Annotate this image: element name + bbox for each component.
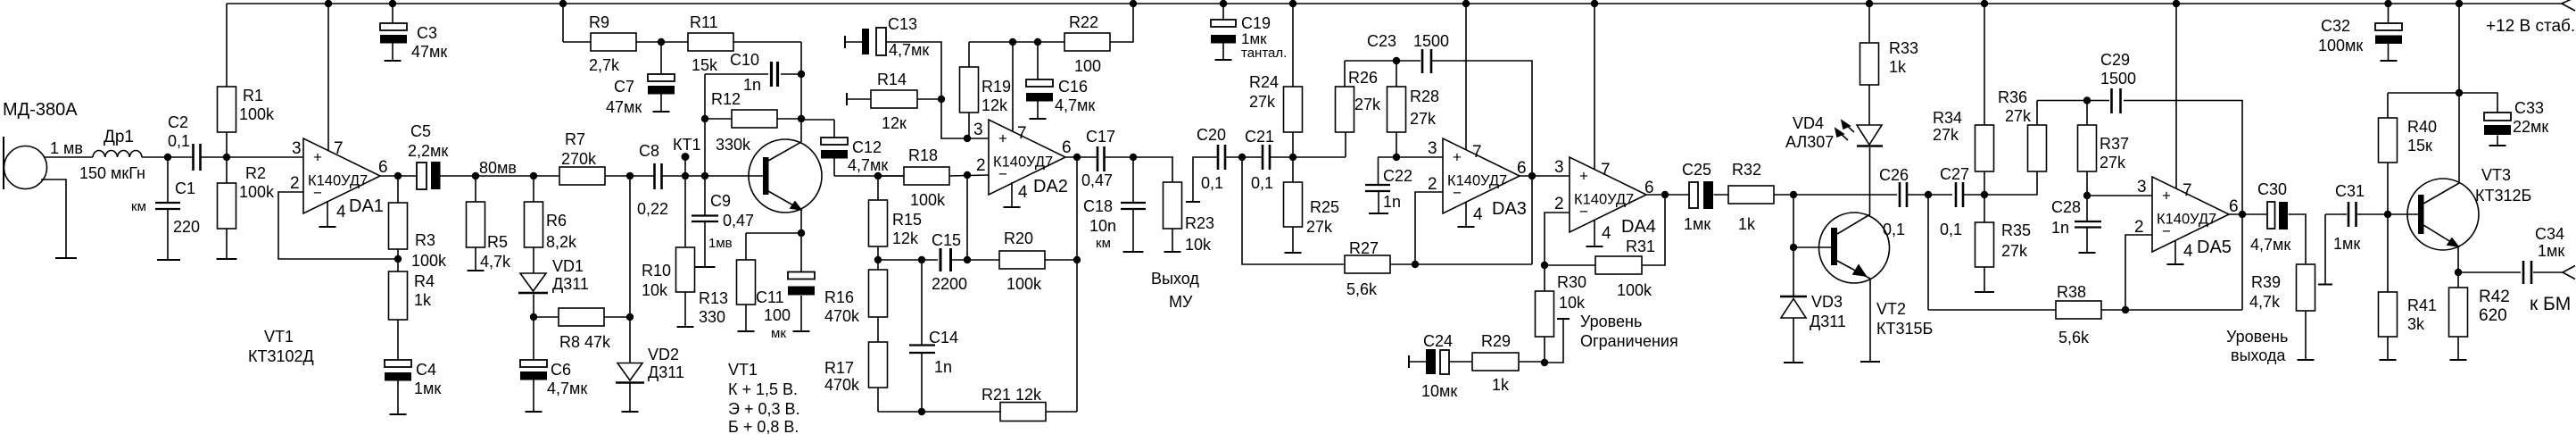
svg-text:330: 330 xyxy=(699,308,725,326)
svg-text:27k: 27k xyxy=(1306,218,1333,236)
svg-text:80мв: 80мв xyxy=(479,159,517,177)
svg-text:0,1: 0,1 xyxy=(1883,221,1905,238)
svg-text:R1: R1 xyxy=(243,87,263,104)
ground R25 xyxy=(1285,252,1302,254)
svg-text:4,7мк: 4,7мк xyxy=(889,41,929,59)
svg-text:C21: C21 xyxy=(1245,128,1274,146)
junction DA2 output xyxy=(1073,154,1081,161)
wire C23 to output vertical xyxy=(1432,61,1532,264)
junction rail R9 xyxy=(559,0,567,7)
svg-text:10k: 10k xyxy=(642,281,668,299)
svg-text:тантал.: тантал. xyxy=(1241,46,1287,61)
wire R12 right lead xyxy=(777,118,801,120)
wire C17 to R23 xyxy=(1105,156,1173,158)
wire +12V rail xyxy=(227,3,2562,4)
svg-text:C8: C8 xyxy=(639,142,659,160)
wire VD1 to node xyxy=(533,295,534,318)
junction DA3 pin3 node xyxy=(1393,154,1400,161)
wire R20 right xyxy=(1045,259,1077,261)
wire C15 to node xyxy=(949,259,999,261)
wire node to R30 xyxy=(1544,265,1545,291)
svg-text:6: 6 xyxy=(2229,197,2239,216)
svg-text:R19: R19 xyxy=(982,78,1011,96)
junction R15 R16 C15 node xyxy=(874,256,882,263)
svg-text:7: 7 xyxy=(2183,181,2192,200)
wire C12 to R18 node xyxy=(834,175,904,177)
svg-text:R33: R33 xyxy=(1889,39,1918,57)
svg-text:1500: 1500 xyxy=(1413,32,1449,50)
wire node to VT1 base xyxy=(705,175,763,177)
ground VT2 emitter xyxy=(1860,361,1880,363)
svg-text:R36: R36 xyxy=(1998,88,2027,106)
wire C10 R12 left vertical xyxy=(704,74,706,176)
junction KT1 node xyxy=(682,172,689,179)
svg-text:1мк: 1мк xyxy=(414,380,441,397)
wire C26C27 node down xyxy=(1927,195,1929,310)
svg-text:6: 6 xyxy=(378,158,388,177)
wire DA4 output xyxy=(1645,194,1689,196)
svg-text:R32: R32 xyxy=(1732,161,1761,179)
resistor R38 5,6k xyxy=(2056,301,2101,319)
wire C13 to R14 node xyxy=(886,42,941,99)
svg-text:мк: мк xyxy=(771,326,786,341)
wire DA5 output xyxy=(2229,213,2267,215)
capacitor C32 100мк xyxy=(2388,4,2390,23)
pin 7 DA2 xyxy=(1012,42,1014,131)
ground R13 xyxy=(738,330,755,332)
svg-text:4: 4 xyxy=(1473,205,1483,224)
svg-text:+: + xyxy=(998,130,1007,147)
junction DA3 output xyxy=(1528,172,1536,179)
wire node to R26 xyxy=(1293,156,1346,158)
svg-text:12k: 12k xyxy=(982,96,1008,114)
wire R18 to pin2 xyxy=(949,175,989,176)
resistor R19 12k xyxy=(960,67,979,113)
svg-text:R21 12k: R21 12k xyxy=(982,386,1042,404)
svg-text:C26: C26 xyxy=(1879,166,1909,184)
wire R38 to output vertical xyxy=(2101,309,2242,311)
resistor R16 470k xyxy=(869,270,888,317)
svg-text:C5: C5 xyxy=(410,122,431,140)
wire C21 to R24 node xyxy=(1271,156,1293,158)
wire node to R16 xyxy=(877,260,879,270)
svg-text:2: 2 xyxy=(976,156,986,175)
svg-text:100k: 100k xyxy=(1617,281,1652,299)
svg-text:C20: C20 xyxy=(1197,126,1226,144)
resistor R32 1k xyxy=(1728,186,1774,204)
resistor R31 100k xyxy=(1595,256,1642,274)
capacitor C12 4,7мк xyxy=(833,120,835,138)
pot tap Уровень выхода xyxy=(2324,214,2326,284)
capacitor C33 22мк xyxy=(2459,93,2497,113)
capacitor C34 1мк xyxy=(2522,261,2525,284)
wire C34 to connector xyxy=(2533,271,2563,273)
svg-text:C33: C33 xyxy=(2514,99,2544,117)
svg-text:МУ: МУ xyxy=(1169,293,1193,311)
wire rail to VT3 collector xyxy=(2458,4,2460,183)
wire C30 to R39 xyxy=(2289,214,2307,264)
wire DA3 pin2 loop xyxy=(1415,192,1443,264)
ground R42 xyxy=(2450,359,2467,361)
junction R8 VD2 node xyxy=(626,313,634,321)
resistor R34 27k xyxy=(1975,125,1994,171)
svg-text:C12: C12 xyxy=(852,138,882,156)
junction rail C32 xyxy=(2384,0,2391,7)
wire R23 ground lead xyxy=(1172,229,1173,252)
svg-text:R9: R9 xyxy=(589,13,609,31)
junction rail VT3 collector xyxy=(2456,0,2463,7)
svg-text:620: 620 xyxy=(2479,306,2507,325)
junction DA1 output xyxy=(394,172,402,179)
svg-text:R2: R2 xyxy=(245,164,266,182)
svg-text:1k: 1k xyxy=(414,291,432,309)
svg-text:R22: R22 xyxy=(1069,13,1098,31)
wire R11 right to corner xyxy=(733,41,801,43)
wire R5 ground lead xyxy=(475,247,476,271)
svg-text:100k: 100k xyxy=(411,252,447,270)
capacitor C30 4,7мк xyxy=(2267,202,2275,229)
svg-text:27k: 27k xyxy=(2001,242,2028,260)
capacitor C3 47мк xyxy=(392,4,393,23)
junction pin2 R20 node xyxy=(964,256,971,263)
junction R12 right xyxy=(798,115,805,122)
wire DA4 pin2 loop xyxy=(1545,213,1570,265)
wire R28 bottom lead xyxy=(1396,132,1397,157)
svg-text:R40: R40 xyxy=(2407,118,2437,136)
svg-text:VT1: VT1 xyxy=(264,328,294,346)
resistor R15 12k xyxy=(869,200,888,246)
svg-text:4: 4 xyxy=(336,203,346,221)
wire terminal to C24 xyxy=(1409,361,1426,363)
svg-text:6: 6 xyxy=(1517,159,1527,178)
svg-text:7: 7 xyxy=(1017,124,1027,143)
svg-text:+: + xyxy=(1453,149,1462,166)
svg-text:Выход: Выход xyxy=(1151,270,1199,288)
wire R27 right xyxy=(1390,263,1532,265)
capacitor C27 0,1 xyxy=(1955,182,1958,207)
svg-text:1n: 1n xyxy=(743,76,761,94)
svg-text:КТ1: КТ1 xyxy=(673,136,701,154)
wire DA2 output xyxy=(1065,156,1097,158)
pin 4 DA3 xyxy=(1465,202,1467,227)
capacitor C13 4,7мк xyxy=(844,36,846,48)
wire VT3 emitter down xyxy=(2457,246,2459,272)
svg-text:470k: 470k xyxy=(824,376,860,394)
svg-text:100k: 100k xyxy=(1006,275,1042,293)
wire node to VD3 xyxy=(1793,195,1794,297)
svg-text:выхода: выхода xyxy=(2231,346,2286,364)
wire pin3 node to R19 xyxy=(968,113,970,138)
wire node to R5 xyxy=(475,176,476,202)
svg-text:47мк: 47мк xyxy=(606,98,642,116)
wire node to C6 xyxy=(533,317,534,360)
svg-text:15к: 15к xyxy=(2407,137,2432,154)
svg-text:C32: C32 xyxy=(2321,17,2350,35)
wire VT2 emitter down xyxy=(1869,279,1871,362)
svg-text:3: 3 xyxy=(292,139,302,158)
pin 4 DA1 xyxy=(327,201,328,227)
wire R31 right to output xyxy=(1642,195,1665,265)
wire node to R2 xyxy=(226,157,228,183)
svg-text:0,1: 0,1 xyxy=(1251,174,1273,192)
svg-text:1k: 1k xyxy=(1889,58,1907,76)
resistor R23 10k xyxy=(1164,182,1182,229)
svg-text:R15: R15 xyxy=(892,211,922,229)
ground C16 xyxy=(1030,118,1047,120)
svg-text:10k: 10k xyxy=(1559,294,1586,312)
junction rail C19 xyxy=(1220,0,1227,7)
wire R40 top wire xyxy=(2388,93,2459,118)
svg-text:12к: 12к xyxy=(882,114,907,132)
wire R32 to C26 xyxy=(1774,194,1897,196)
wire R40 to base node xyxy=(2387,163,2389,214)
svg-text:0,47: 0,47 xyxy=(723,212,754,230)
wire R1 to node xyxy=(226,132,228,157)
svg-text:R38: R38 xyxy=(2057,283,2086,301)
junction R15 R18 node xyxy=(874,172,882,179)
wire C22 corner to pin3 DA3 xyxy=(1378,156,1443,158)
svg-text:100k: 100k xyxy=(239,105,275,123)
microphone BM1 МД-380А xyxy=(3,137,4,189)
resistor R42 620 xyxy=(2449,288,2468,337)
pin 4 DA2 xyxy=(1011,182,1013,207)
resistor R40 15к xyxy=(2379,118,2398,163)
svg-text:22мк: 22мк xyxy=(2513,118,2548,136)
resistor R27 5,6k xyxy=(1345,255,1390,273)
ground R41 xyxy=(2380,359,2397,361)
resistor R25 27k xyxy=(1284,182,1303,227)
svg-text:К140УД7: К140УД7 xyxy=(1447,173,1507,189)
wire inductor to C2 xyxy=(142,156,193,158)
junction rail R33 xyxy=(1866,0,1873,7)
junction R40 C33 node xyxy=(2456,89,2463,96)
wire node to R15 xyxy=(877,176,879,200)
connector arrow +12V xyxy=(2562,0,2575,11)
svg-text:4,7мк: 4,7мк xyxy=(1055,96,1095,114)
wire R4 to C4 xyxy=(397,320,399,360)
wire node to R6 xyxy=(533,176,534,202)
svg-text:100k: 100k xyxy=(239,183,275,201)
wire node to DA5 pin3 xyxy=(2087,195,2152,196)
svg-text:4,7мк: 4,7мк xyxy=(547,380,587,397)
ground VD2 xyxy=(622,411,639,413)
resistor R37 27k xyxy=(2078,125,2097,171)
wire node to C15 xyxy=(878,259,938,261)
svg-text:330k: 330k xyxy=(716,136,751,154)
diode VD1 Д311 xyxy=(520,273,546,291)
capacitor C29 1500 xyxy=(2110,88,2113,113)
svg-text:15k: 15k xyxy=(692,56,718,74)
svg-text:DA4: DA4 xyxy=(1621,217,1656,237)
resistor R14 12к xyxy=(871,90,917,108)
resistor R3 100k xyxy=(389,203,408,249)
resistor R11 15k xyxy=(688,33,733,51)
svg-text:C27: C27 xyxy=(1940,165,1969,183)
junction R20 feedback xyxy=(1073,256,1081,263)
svg-text:6: 6 xyxy=(1062,138,1072,157)
svg-text:R16: R16 xyxy=(824,288,854,306)
junction DA5 output xyxy=(2239,211,2246,218)
junction DA2 pin3 xyxy=(964,135,971,142)
junction C7 node xyxy=(658,38,665,46)
svg-text:12k: 12k xyxy=(892,230,919,247)
resistor R36 27k xyxy=(2028,125,2047,171)
svg-text:C17: C17 xyxy=(1086,128,1115,146)
capacitor C25 1мк xyxy=(1689,182,1698,208)
svg-text:27k: 27k xyxy=(2100,154,2126,171)
svg-text:1k: 1k xyxy=(1738,215,1756,233)
resistor R39 4,7k xyxy=(2297,264,2315,311)
svg-text:МД-380А: МД-380А xyxy=(3,100,78,120)
wire R3 to node xyxy=(397,249,399,259)
wire VD4 to VT2 collector xyxy=(1869,147,1871,214)
svg-text:Уровень: Уровень xyxy=(2226,328,2288,346)
capacitor C26 0,1 xyxy=(1899,182,1901,207)
wire DA3 output to DA4 xyxy=(1520,175,1570,177)
wire R33 to VD4 xyxy=(1868,85,1870,125)
svg-text:100мк: 100мк xyxy=(2318,37,2363,54)
svg-text:КТ312Б: КТ312Б xyxy=(2475,187,2531,204)
wire VD2 ground lead xyxy=(629,384,631,413)
capacitor C9 0,47 xyxy=(704,176,706,215)
wire R28 top lead xyxy=(1396,61,1397,87)
transistor VT2 КТ315Б xyxy=(1819,213,1890,283)
capacitor C7 47мк xyxy=(660,42,662,74)
wire R37 top lead xyxy=(2086,101,2088,126)
svg-text:R8 47k: R8 47k xyxy=(559,333,611,351)
svg-text:R27: R27 xyxy=(1349,239,1379,257)
svg-text:1мк: 1мк xyxy=(1684,215,1710,233)
svg-text:R18: R18 xyxy=(908,146,938,164)
svg-text:4,7мк: 4,7мк xyxy=(848,156,888,174)
wire C25 to R32 xyxy=(1714,194,1729,196)
svg-text:100: 100 xyxy=(1074,57,1101,75)
wire node to R25 xyxy=(1292,157,1294,182)
wire rail to R33 xyxy=(1868,4,1870,43)
svg-text:27k: 27k xyxy=(1249,93,1276,111)
capacitor C14 1n xyxy=(921,260,923,345)
ground C28 xyxy=(2079,252,2096,254)
inductor Др1 150 мкГн xyxy=(93,150,142,157)
wire R12 left lead xyxy=(705,118,732,120)
svg-text:R10: R10 xyxy=(642,262,671,280)
svg-text:к БМ: к БМ xyxy=(2530,294,2571,314)
wire VD3 ground lead xyxy=(1793,318,1794,363)
capacitor C16 4,7мк xyxy=(1037,42,1039,79)
ground R39 xyxy=(2298,359,2315,361)
junction VT3 base node xyxy=(2384,211,2391,218)
wire R14 node to pin3 xyxy=(941,99,989,138)
svg-text:R24: R24 xyxy=(1249,73,1279,91)
svg-text:+: + xyxy=(1579,168,1588,185)
resistor R18 100k xyxy=(904,167,949,185)
svg-text:C2: C2 xyxy=(168,113,188,131)
resistor R1 100k xyxy=(218,87,236,132)
svg-text:R17: R17 xyxy=(824,359,854,377)
junction VT3 emitter node xyxy=(2455,269,2462,276)
ground VD3 xyxy=(1784,362,1803,363)
ground C4 xyxy=(390,413,407,415)
wire emitter to C34 xyxy=(2458,271,2521,273)
svg-text:2: 2 xyxy=(1554,195,1564,213)
wire R31 left lead xyxy=(1545,264,1595,266)
resistor R2 100k xyxy=(218,183,236,229)
wire pin2 down to node xyxy=(966,175,968,260)
terminal C24 input xyxy=(1408,355,1410,368)
capacitor C5 2,2мк xyxy=(417,163,427,189)
svg-text:Уровень: Уровень xyxy=(1580,313,1642,330)
junction C10 right xyxy=(798,71,805,78)
svg-text:2: 2 xyxy=(290,174,300,193)
capacitor C2 0,1 xyxy=(192,144,195,171)
svg-text:Др1: Др1 xyxy=(104,128,134,146)
junction rail C3 xyxy=(389,0,396,7)
wire base node to R41 xyxy=(2387,214,2389,292)
diode VD2 Д311 xyxy=(617,363,642,381)
svg-text:0,1: 0,1 xyxy=(1201,174,1223,192)
svg-text:27k: 27k xyxy=(1410,110,1437,128)
svg-text:К140УД7: К140УД7 xyxy=(308,173,368,189)
resistor R10 10k xyxy=(676,247,695,292)
junction R3 R4 feedback xyxy=(394,255,402,263)
svg-text:1мв: 1мв xyxy=(708,236,733,251)
wire rail to R24 xyxy=(1292,4,1294,87)
junction R37 top xyxy=(2083,96,2091,104)
wire bottom feedback xyxy=(878,411,1001,413)
capacitor C6 4,7мк xyxy=(520,360,547,367)
wire DA1 feedback pin2 xyxy=(278,192,398,259)
wire R14 right lead xyxy=(917,98,941,100)
wire R16 to R17 xyxy=(877,317,879,342)
wire R9 to R11 xyxy=(636,41,688,43)
svg-text:1мк: 1мк xyxy=(2333,235,2360,253)
svg-text:C3: C3 xyxy=(417,24,437,42)
wire R11 to collector vertical xyxy=(800,42,802,142)
ground C18 xyxy=(1123,251,1144,253)
svg-text:+: + xyxy=(313,149,322,166)
svg-text:Д311: Д311 xyxy=(552,275,589,293)
svg-text:R7: R7 xyxy=(565,130,585,148)
junction DA4 output xyxy=(1661,191,1669,198)
capacitor C22 1n xyxy=(1378,157,1379,185)
wire output feedback vertical xyxy=(1076,157,1078,412)
wire rail to R1 xyxy=(226,4,228,87)
svg-text:R37: R37 xyxy=(2100,135,2129,153)
svg-text:R4: R4 xyxy=(414,272,435,290)
wire R29 to node xyxy=(1519,361,1545,363)
junction C16 node xyxy=(1034,38,1041,46)
svg-text:R5: R5 xyxy=(487,233,508,251)
wire node to R4 xyxy=(397,259,399,271)
wire KT1 node to R10 xyxy=(684,176,686,247)
wire node to R42 xyxy=(2457,272,2459,288)
svg-text:27k: 27k xyxy=(1354,96,1381,113)
svg-text:1n: 1n xyxy=(1383,193,1401,211)
resistor R33 1k xyxy=(1860,43,1879,85)
capacitor C17 0,47 xyxy=(1097,146,1099,171)
wire R6 to VD1 xyxy=(533,247,534,273)
wire node to R18 xyxy=(878,175,904,177)
wire DA1 output xyxy=(380,175,417,177)
svg-text:1 мв: 1 мв xyxy=(50,139,83,157)
svg-text:4,7k: 4,7k xyxy=(480,253,511,271)
svg-text:км: км xyxy=(131,199,146,214)
svg-text:C29: C29 xyxy=(2100,51,2130,69)
wire R26 top to C23 xyxy=(1345,61,1421,87)
resistor R6 8,2k xyxy=(525,202,543,247)
wire R8 left xyxy=(534,316,559,318)
wire R36 bottom lead xyxy=(2036,171,2038,196)
